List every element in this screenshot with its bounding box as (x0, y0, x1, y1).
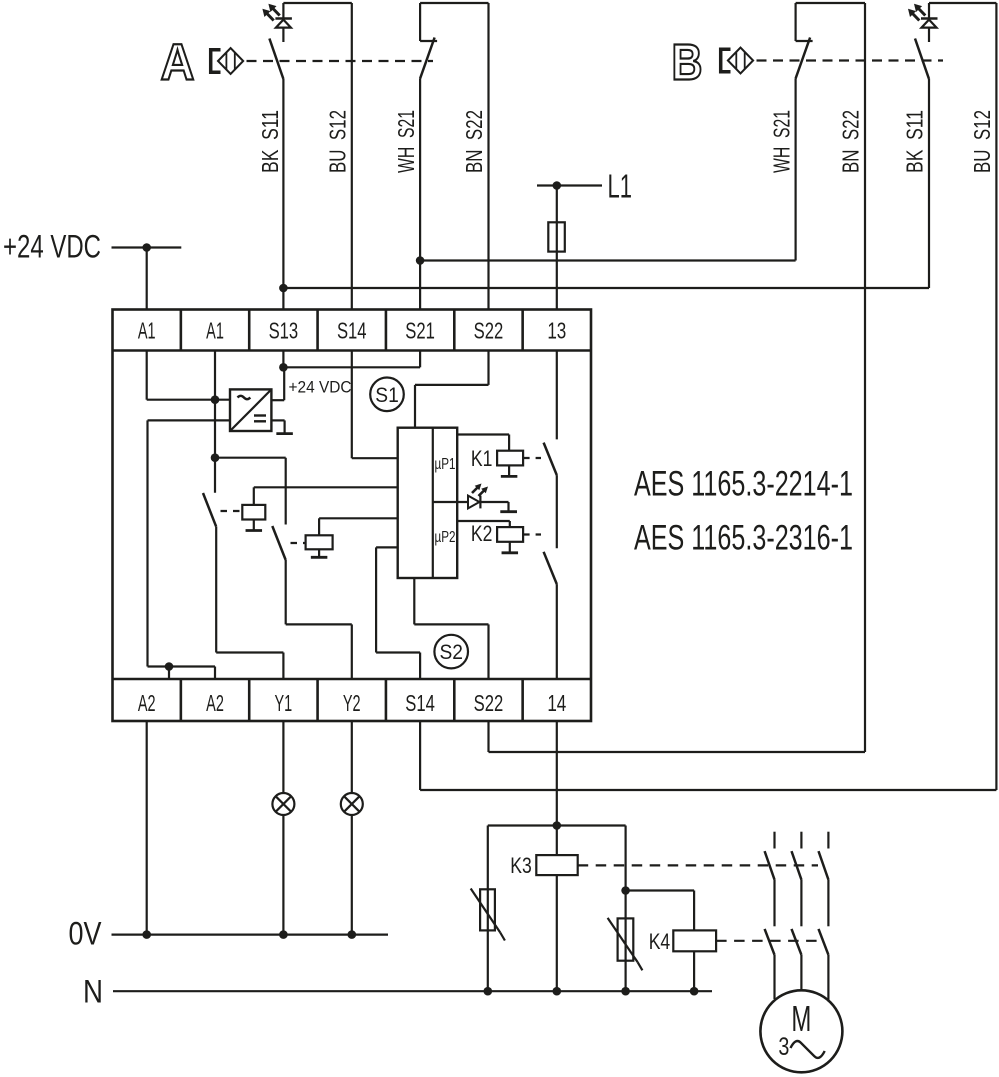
node feedback junction (211, 453, 220, 462)
microprocessor uP1/uP2 box (398, 428, 458, 578)
wire +24 VDC feed (112, 246, 182, 248)
wire contact F2 fixed (285, 458, 287, 525)
svg-text:BN S22: BN S22 (461, 110, 487, 173)
wire A1b down (214, 351, 216, 493)
node A1 junction (211, 395, 220, 404)
wire uP to S22 bottom (414, 578, 488, 679)
label L1 (608, 168, 633, 205)
terminal strip bottom (113, 679, 592, 721)
wire coil F2 to uP2 (319, 518, 398, 535)
LED B (908, 4, 938, 28)
wire K4 coil to N (693, 951, 695, 991)
node K3 N junction (553, 987, 562, 996)
wire varistor1 branch (487, 826, 489, 992)
wire internal +24 rail (283, 366, 420, 368)
node internal +24 junction (279, 363, 288, 372)
lamp H2 (341, 793, 363, 815)
wire BN S22 (487, 3, 489, 310)
label 0V (69, 916, 103, 952)
svg-text:Y1: Y1 (275, 690, 293, 716)
wire S22 top to uP top (415, 351, 489, 428)
svg-text:WH S21: WH S21 (768, 110, 794, 173)
wire PSU output gnd stub (271, 419, 284, 421)
svg-text:N: N (83, 974, 103, 1010)
wire K3 coil leads (556, 826, 558, 992)
svg-text:S2: S2 (439, 641, 463, 664)
wire L1 feed (537, 184, 602, 186)
label BU S12 (325, 110, 351, 173)
label BN S22 (461, 110, 487, 173)
svg-text:S13: S13 (269, 318, 299, 344)
wire left vertical to A2 rail (146, 420, 148, 666)
magnet actuator A (211, 48, 244, 74)
wire A top bar S21-S22 (420, 2, 488, 4)
magnet actuator B (721, 48, 753, 74)
motor M1 (760, 990, 842, 1072)
node L1 junction (553, 181, 562, 190)
wire B BK S11 down (928, 79, 930, 288)
wire uP2 to K2 coil (457, 521, 510, 527)
K4 dashed link (716, 940, 818, 942)
label AES 1165.3-2214-1 (634, 465, 853, 504)
wire K3 rail (488, 824, 626, 826)
svg-text:K2: K2 (471, 521, 493, 546)
terminal strip top (113, 310, 592, 351)
wire B WH S21 down (794, 79, 796, 261)
fuse F1 (548, 222, 565, 251)
contact F2 (NO) blade (272, 526, 285, 560)
svg-text:+24 VDC: +24 VDC (289, 378, 352, 397)
terminal A2 bottom pin (138, 690, 156, 716)
wire LED B stubs (928, 3, 930, 42)
svg-text:S1: S1 (375, 384, 399, 407)
svg-text:K4: K4 (649, 929, 671, 954)
relay coil box F2 (306, 535, 333, 549)
sensor B label (672, 34, 703, 91)
relay coil box F1 (242, 505, 265, 520)
label AES 1165.3-2316-1 (634, 519, 853, 558)
svg-text:S21: S21 (405, 318, 435, 344)
actuation dashed line A (247, 60, 434, 62)
wire junction to contact2 branch (215, 457, 286, 459)
module LED wire (457, 501, 508, 503)
label K3 (510, 853, 532, 878)
wire S14 bottom to B S12 (420, 721, 996, 790)
wire A1a to PSU (147, 351, 230, 400)
label WH S21 (393, 110, 419, 173)
wire B BN S22 down (864, 3, 866, 752)
terminal S14 bottom pin (405, 690, 435, 716)
wire contact F2 to Y2 (286, 560, 352, 679)
contact K3 phase 1 (765, 832, 775, 927)
label BK S11 (257, 110, 283, 173)
varistor R2 (608, 918, 643, 970)
wire varistor2 branch (624, 891, 626, 992)
svg-text:AES 1165.3-2214-1: AES 1165.3-2214-1 (634, 465, 853, 504)
node +24 VDC junction (142, 243, 151, 252)
node varistor2 N junction (621, 987, 630, 996)
node A2 0V junction (142, 930, 151, 939)
terminal S22 top pin (474, 318, 504, 344)
wire A2 rail (148, 665, 216, 667)
svg-text:S22: S22 (474, 690, 504, 716)
K2 dashes (523, 533, 541, 535)
wire PSU lower-left rail (148, 419, 231, 421)
wire contact F1 to Y1 (216, 527, 283, 679)
ground PSU (276, 420, 293, 433)
wire S13 stub to +24 rail (282, 351, 284, 368)
node K4 branch junction (621, 886, 630, 895)
wire uP to S14 bottom (376, 547, 420, 679)
label uP2 (435, 529, 456, 546)
contact F1 (NO) blade (203, 493, 216, 527)
wire lamp H2 to 0V (351, 815, 353, 935)
ground coil F1 (246, 520, 262, 531)
label B BK S11 (902, 110, 928, 173)
wire +24 VDC to A1 (146, 248, 148, 310)
label K1 (471, 446, 493, 471)
label B WH S21 (768, 110, 794, 173)
node H1 0V junction (279, 930, 288, 939)
contact A S11 (NO) blade (269, 39, 283, 80)
svg-text:AES 1165.3-2316-1: AES 1165.3-2316-1 (634, 519, 853, 558)
svg-text:L1: L1 (608, 168, 633, 205)
svg-text:Y2: Y2 (343, 690, 361, 716)
wire S14 top to uP1 (352, 351, 398, 459)
wire A2 to 0V (146, 721, 148, 935)
svg-text:BK S11: BK S11 (257, 110, 283, 173)
wire rail S21 (A to B) (420, 259, 795, 261)
module LED arrows (472, 484, 488, 497)
svg-text:+24 VDC: +24 VDC (3, 229, 101, 265)
relay coil K1 (497, 451, 523, 466)
wire WH S21 (419, 79, 421, 310)
svg-text:K3: K3 (510, 853, 532, 878)
terminal S22 bottom pin (474, 690, 504, 716)
contact K2 (NO) blade (544, 552, 557, 584)
node A2 rail junction (165, 662, 174, 671)
svg-text:M: M (791, 998, 811, 1039)
label internal +24 VDC (289, 378, 352, 397)
wire fuse to terminal 13 (556, 252, 558, 310)
wire 14 to K3 rail (556, 721, 558, 826)
svg-text:B: B (672, 34, 703, 91)
svg-text:14: 14 (547, 690, 566, 716)
svg-text:BU S12: BU S12 (325, 110, 351, 173)
svg-text:A1: A1 (206, 318, 224, 344)
module LED (468, 496, 480, 509)
svg-text:µP1: µP1 (435, 456, 456, 473)
wire PSU output to +24 rail (271, 367, 284, 400)
terminal 13 top pin (547, 318, 566, 344)
wire BU S12 (351, 3, 353, 310)
module LED gnd (500, 502, 517, 512)
wire rail S11 (A to B) (283, 287, 929, 289)
node rail S21 junction (416, 256, 425, 265)
contact K3 phase 3 (819, 832, 829, 927)
contact K4 phase 3 (819, 929, 829, 1002)
terminal S21 top pin (405, 318, 435, 344)
wire uP1 to K1 coil (457, 435, 509, 451)
node K3 rail junction (553, 821, 562, 830)
terminal A1 top pin (206, 318, 224, 344)
label B BN S22 (838, 110, 864, 173)
wire 13 stub (556, 351, 558, 440)
svg-text:BU S12: BU S12 (969, 110, 995, 173)
label +24 VDC supply (3, 229, 101, 265)
wire K4 branch down (624, 826, 626, 891)
ground coil F2 (311, 549, 328, 557)
wire K2 to 14 (556, 584, 558, 679)
wire BK S11 (282, 79, 284, 310)
svg-text:13: 13 (547, 318, 566, 344)
varistor R1 (471, 889, 505, 941)
node K4 N junction (690, 987, 699, 996)
svg-text:S14: S14 (405, 690, 435, 716)
terminal 14 bottom pin (547, 690, 566, 716)
actuation dashed line B (757, 59, 944, 61)
fuse S1 circle (370, 378, 404, 412)
contact K1 (NO) blade (544, 443, 557, 476)
wire B top bar S21-S22 (796, 2, 865, 4)
sensor A label (161, 34, 195, 91)
svg-text:A2: A2 (206, 690, 224, 716)
wire S21 stub to +24 rail (419, 351, 421, 368)
node varistor1 N junction (484, 987, 493, 996)
relay coil K3 (536, 855, 577, 875)
wire L1 to fuse (556, 186, 558, 223)
label K4 (649, 929, 671, 954)
relay coil K4 (673, 930, 716, 951)
terminal A1 top pin (138, 318, 156, 344)
ground coil K1 (501, 465, 517, 476)
relay coil K2 (497, 527, 523, 542)
fuse S2 circle (434, 635, 468, 669)
svg-text:A1: A1 (138, 318, 156, 344)
svg-text:3: 3 (778, 1033, 789, 1061)
svg-text:µP2: µP2 (435, 529, 456, 546)
wire B top bar S11-S12 (929, 2, 996, 4)
node H2 0V junction (348, 930, 357, 939)
wire 0V line (112, 933, 389, 935)
svg-text:S22: S22 (474, 318, 504, 344)
svg-text:S14: S14 (337, 318, 367, 344)
wire Y1 to lamp (282, 721, 284, 793)
wire coil F1 to uP1 (254, 487, 398, 505)
LED A (262, 4, 292, 28)
wire A top bar S11-S12 (283, 2, 351, 4)
wire K4 feed (626, 891, 695, 931)
label uP1 (435, 456, 456, 473)
contact F1 dashes (221, 510, 240, 512)
contact A S21 (NC) (420, 3, 437, 79)
safety module AES outline (113, 310, 592, 722)
ground coil K2 (502, 542, 519, 553)
terminal Y1 bottom pin (275, 690, 293, 716)
wire B BU S12 down (995, 3, 997, 790)
terminal S14 top pin (337, 318, 367, 344)
lamp H1 (272, 793, 294, 815)
svg-text:BN S22: BN S22 (838, 110, 864, 173)
label B BU S12 (969, 110, 995, 173)
contact K3 phase 2 (792, 832, 802, 927)
contact K4 phase 2 (792, 929, 802, 991)
svg-text:BK S11: BK S11 (902, 110, 928, 173)
wire lamp H1 to 0V (282, 815, 284, 935)
contact F2 dashes (291, 542, 305, 544)
contact K4 phase 1 (765, 929, 775, 999)
svg-text:K1: K1 (471, 446, 493, 471)
label K2 (471, 521, 493, 546)
wire Y2 to lamp (351, 721, 353, 793)
wire LED A stubs (282, 3, 284, 42)
svg-text:A2: A2 (138, 690, 156, 716)
K3 dashed link (578, 864, 818, 866)
terminal Y2 bottom pin (343, 690, 361, 716)
contact B S11 (NO) blade (915, 39, 929, 80)
contact B S21 (NC) (796, 3, 813, 79)
wire S22 bottom to B S22 (489, 721, 866, 752)
label N (83, 974, 103, 1010)
K1 dashes (523, 457, 541, 459)
wire K1-K2 link (556, 475, 558, 548)
power supply U1 (230, 389, 271, 431)
wire A2b drop (214, 667, 216, 680)
wire A2a drop (168, 667, 170, 680)
wire N line (113, 990, 712, 992)
terminal S13 top pin (269, 318, 299, 344)
terminal A2 bottom pin (206, 690, 224, 716)
svg-text:WH S21: WH S21 (393, 110, 419, 173)
svg-text:A: A (161, 34, 195, 91)
node rail S11 junction (279, 284, 288, 293)
svg-text:0V: 0V (69, 916, 103, 952)
